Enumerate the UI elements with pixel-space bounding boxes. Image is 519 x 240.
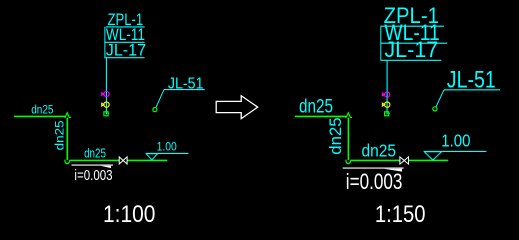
- valve V1 bowtie (left): [119, 157, 127, 164]
- leader wire JL-51 (right): [436, 90, 444, 107]
- slope arrow line (left): [72, 164, 114, 166]
- level line 1.00 (left): [146, 152, 188, 154]
- leader wire JL-51 (left): [156, 90, 164, 108]
- svg-text:1:150: 1:150: [375, 201, 426, 228]
- svg-text:dn25: dn25: [327, 117, 345, 155]
- level triangle (right): [424, 152, 441, 160]
- riser arrow up (right): [345, 113, 352, 118]
- svg-text:1.00: 1.00: [157, 140, 177, 154]
- pipe vertical (left): [66, 118, 68, 161]
- pipe dn25 bottom horizontal (right): [351, 159, 449, 161]
- riser arrow down (right): [346, 160, 351, 164]
- pipe dn25 top horizontal (left): [14, 115, 66, 117]
- svg-text:dn25: dn25: [299, 97, 333, 118]
- svg-text:1:100: 1:100: [103, 201, 155, 228]
- underline under ZPL-1 (right): [381, 25, 445, 27]
- leader bracket wire (right): [380, 26, 382, 60]
- fitting symbol magenta (right): [382, 92, 389, 97]
- svg-text:i=0.003: i=0.003: [346, 169, 403, 194]
- underline under ZPL-1 (left): [106, 26, 145, 28]
- drop leader wire (left): [105, 58, 107, 115]
- fitting symbol yellow (right): [382, 102, 390, 107]
- underline under JL-17 (right): [381, 59, 442, 61]
- pipe dn25 top horizontal (right): [295, 115, 347, 117]
- node circle green (left): [153, 108, 157, 112]
- underline under WL-11 (right): [381, 42, 448, 44]
- level line 1.00 (right): [424, 150, 487, 152]
- fitting symbol yellow (left): [102, 102, 110, 107]
- slope arrowhead (left): [101, 166, 111, 168]
- underline under JL-17 (left): [104, 57, 144, 59]
- level triangle (left): [146, 154, 157, 160]
- riser arrow up (left): [64, 113, 71, 118]
- underline under JL-51 (right): [444, 89, 500, 91]
- block arrow middle: [216, 96, 258, 119]
- leader bracket wire (left): [104, 27, 106, 58]
- svg-text:1.00: 1.00: [441, 131, 470, 151]
- riser arrow down (left): [65, 160, 70, 164]
- outlet symbol green (left): [104, 112, 109, 116]
- svg-text:JL-17: JL-17: [106, 41, 146, 60]
- pipe dn25 bottom horizontal (left): [70, 159, 168, 161]
- node circle green (right): [433, 107, 437, 111]
- svg-text:i=0.003: i=0.003: [74, 168, 112, 184]
- outlet symbol green (right): [385, 112, 390, 116]
- svg-text:JL-17: JL-17: [384, 37, 438, 62]
- slope arrow line (right): [343, 167, 404, 169]
- fitting symbol magenta (left): [102, 91, 109, 96]
- svg-text:dn25: dn25: [53, 120, 67, 150]
- svg-text:dn25: dn25: [31, 105, 53, 117]
- underline under WL-11 (left): [104, 41, 144, 43]
- pipe vertical (right): [347, 118, 349, 161]
- valve V2 bowtie (right): [400, 157, 409, 164]
- underline under JL-51 (left): [164, 89, 205, 91]
- drop leader wire (right): [386, 60, 388, 114]
- svg-text:dn25: dn25: [362, 140, 397, 160]
- slope arrowhead (right): [384, 169, 402, 172]
- svg-text:dn25: dn25: [84, 146, 106, 161]
